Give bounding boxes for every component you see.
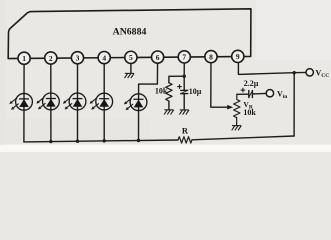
plus sign C1 bbox=[177, 84, 182, 89]
junction dot Vcc node bbox=[293, 71, 296, 74]
junction dot pin7 node bbox=[183, 75, 186, 78]
junction dot rail LED3 bbox=[76, 140, 79, 143]
ground below pin 5 bbox=[125, 73, 135, 78]
svg-text:1: 1 bbox=[22, 54, 26, 63]
svg-text:10k: 10k bbox=[243, 108, 256, 117]
wire pin7 vertical to junction bbox=[183, 57, 185, 76]
ground below 10k resistor bbox=[164, 110, 174, 115]
pin 7 bbox=[178, 51, 190, 63]
LED D2 bbox=[36, 93, 59, 110]
capacitor C1 10u plates bbox=[181, 89, 188, 91]
svg-text:10µ: 10µ bbox=[189, 87, 202, 96]
LED D3 bbox=[63, 93, 86, 110]
svg-text:AN6884: AN6884 bbox=[113, 26, 147, 37]
svg-text:2.2µ: 2.2µ bbox=[244, 79, 259, 88]
LED D1 bbox=[9, 93, 32, 110]
svg-text:10k: 10k bbox=[155, 87, 168, 96]
resistor R1 10k (vertical zigzag) bbox=[166, 83, 172, 101]
capacitor C2 2.2u plates bbox=[248, 91, 250, 98]
wire pin8 to wiper bbox=[211, 57, 228, 108]
svg-text:7: 7 bbox=[182, 53, 186, 62]
potentiometer VR 10k (vertical zigzag) bbox=[234, 94, 240, 125]
ground below potentiometer VR bbox=[232, 126, 242, 131]
pin 1 bbox=[18, 52, 30, 64]
wire bottom rail right of R bbox=[192, 136, 294, 140]
wiper arrowhead of VR bbox=[227, 105, 233, 110]
scan tone overlays (decorative) bbox=[0, 0, 6, 145]
pin 9 bbox=[232, 50, 244, 62]
terminal Vin bbox=[266, 90, 273, 97]
pin 6 bbox=[152, 51, 164, 63]
pin 4 bbox=[98, 52, 110, 64]
svg-text:8: 8 bbox=[209, 52, 213, 61]
pin 2 bbox=[45, 52, 57, 64]
plus sign C2 bbox=[241, 88, 246, 93]
scanned paper background bbox=[0, 0, 331, 152]
LED D5 bbox=[124, 94, 147, 111]
svg-text:6: 6 bbox=[156, 53, 160, 62]
svg-text:3: 3 bbox=[76, 54, 80, 63]
wire junction to 10k resistor jog bbox=[169, 76, 184, 83]
junction dot rail LED2 bbox=[49, 140, 52, 143]
wire right vertical Vcc rail bbox=[293, 73, 295, 136]
wire pin9 to Vcc terminal bbox=[238, 56, 306, 74]
pin 8 bbox=[205, 51, 217, 63]
wire C2 branch: pot top corner to Vin bbox=[237, 93, 248, 95]
svg-text:9: 9 bbox=[236, 52, 240, 61]
terminal Vcc bbox=[306, 69, 313, 76]
wire 10k to ground bbox=[168, 101, 170, 110]
resistor R (horizontal zigzag) bbox=[178, 137, 192, 143]
wire C2 to Vin terminal bbox=[252, 92, 266, 95]
ground below capacitor C1 bbox=[179, 110, 189, 115]
svg-text:2: 2 bbox=[49, 54, 53, 63]
wire pin2 chain vertical bbox=[50, 58, 52, 142]
svg-text:5: 5 bbox=[129, 53, 133, 62]
wire pin6 to LED5 jog bbox=[139, 57, 158, 140]
junction dot rail LED5 bbox=[137, 139, 140, 142]
LED D4 bbox=[90, 93, 113, 110]
wire junction to capacitor C1 bbox=[183, 76, 185, 90]
wire pin5 to ground bbox=[130, 57, 132, 73]
IC body U1 (AN6884 package outline) bbox=[8, 9, 251, 59]
wire pin4 chain vertical bbox=[103, 58, 105, 141]
pin 5 bbox=[125, 51, 137, 63]
svg-text:4: 4 bbox=[102, 53, 106, 62]
wire pin1 chain vertical bbox=[23, 58, 25, 142]
junction dot rail LED4 bbox=[103, 139, 106, 142]
wire pin3 chain vertical bbox=[77, 58, 79, 141]
svg-text:R: R bbox=[182, 126, 189, 136]
pin 3 bbox=[71, 52, 83, 64]
wire bottom rail left bbox=[24, 140, 178, 142]
wire C1 to ground bbox=[183, 94, 185, 110]
